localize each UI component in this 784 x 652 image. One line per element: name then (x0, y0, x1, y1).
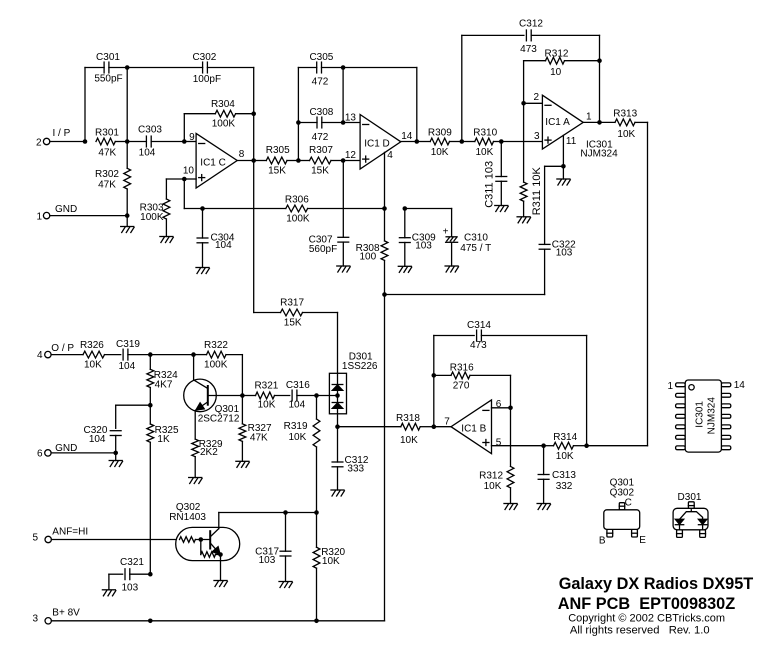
wire (51, 452, 116, 454)
svg-text:104: 104 (118, 361, 135, 372)
resistor R317 (254, 297, 338, 328)
svg-text:1: 1 (36, 211, 42, 222)
capacitor C316 (286, 380, 317, 411)
svg-text:GND: GND (55, 204, 77, 215)
svg-text:104: 104 (139, 147, 156, 158)
capacitor C312 (462, 19, 600, 56)
svg-text:ANF=HI: ANF=HI (52, 526, 88, 537)
capacitor C304 (197, 209, 235, 268)
svg-text:14: 14 (401, 131, 413, 142)
svg-text:C316: C316 (286, 380, 310, 391)
svg-text:R319: R319 (284, 421, 308, 432)
svg-text:R304: R304 (211, 99, 235, 110)
resistor R325 (147, 405, 179, 574)
svg-text:10K: 10K (322, 556, 340, 567)
ground (279, 582, 292, 588)
svg-text:C: C (625, 498, 632, 509)
terminal pin 6 GND (37, 443, 77, 459)
svg-text:R312: R312 (545, 48, 569, 59)
label IC301 NJM324 (580, 140, 618, 160)
svg-text:ANF PCB EPT009830Z: ANF PCB EPT009830Z (558, 595, 735, 613)
svg-text:4: 4 (387, 150, 393, 161)
svg-text:9: 9 (189, 132, 195, 143)
ground (504, 504, 517, 510)
node R314 junction (584, 443, 647, 448)
svg-text:R306: R306 (285, 194, 309, 205)
svg-text:B+ 8V: B+ 8V (52, 607, 80, 618)
node pin2 junction (521, 101, 526, 106)
resistor R319 (284, 396, 320, 513)
svg-text:473: 473 (520, 44, 537, 55)
svg-text:10K: 10K (476, 147, 494, 158)
svg-text:104: 104 (288, 400, 305, 411)
ground (537, 504, 550, 510)
svg-text:3: 3 (534, 131, 540, 142)
wire supply horizontal (385, 294, 545, 296)
svg-text:C312: C312 (519, 19, 543, 30)
node pin7 junction (432, 424, 452, 429)
svg-text:C303: C303 (138, 124, 162, 135)
svg-text:11: 11 (566, 136, 577, 147)
resistor R322 (194, 340, 243, 371)
svg-text:3: 3 (32, 614, 38, 625)
svg-text:14: 14 (734, 380, 746, 391)
svg-text:IC1 C: IC1 C (200, 157, 226, 168)
svg-text:100K: 100K (204, 360, 228, 371)
svg-text:4: 4 (37, 350, 43, 361)
svg-text:R316: R316 (450, 362, 474, 373)
wire pin6 (492, 407, 511, 409)
svg-text:R318: R318 (396, 413, 420, 424)
resistor R307 (298, 145, 343, 177)
ground (160, 237, 173, 243)
svg-text:10K: 10K (556, 451, 574, 462)
resistor R312 (10K) (479, 408, 514, 504)
node pin11 junction (545, 164, 566, 179)
resistor R311 (520, 103, 543, 217)
diode D301 1SS226 (329, 352, 378, 427)
ground (398, 266, 411, 272)
wire Q302 collector (219, 512, 286, 514)
op-amp U1 IC1 A (533, 92, 592, 149)
svg-text:R301: R301 (95, 127, 119, 138)
svg-text:104: 104 (215, 240, 232, 251)
wire R322 right (241, 355, 243, 396)
node R319-R320 junction (314, 510, 319, 515)
node C319 junction (148, 352, 194, 357)
wire pin11 (562, 135, 564, 166)
svg-text:10K: 10K (431, 147, 449, 158)
svg-text:100K: 100K (140, 212, 164, 223)
svg-text:C302: C302 (192, 52, 216, 63)
capacitor C314 (434, 320, 587, 446)
svg-text:15K: 15K (311, 165, 329, 176)
svg-text:475 / T: 475 / T (460, 243, 491, 254)
capacitor C312 (333) (332, 427, 369, 490)
svg-text:All rights reserved Rev. 1.0: All rights reserved Rev. 1.0 (570, 625, 710, 637)
ground (236, 461, 249, 467)
capacitor C308 (298, 107, 343, 143)
svg-text:R313: R313 (613, 109, 637, 120)
wire pin1 (583, 121, 599, 123)
node Q301 base junction (240, 393, 245, 398)
resistor R312 value 10 (524, 48, 600, 78)
wire output vertical (253, 68, 255, 313)
capacitor C303 (127, 124, 184, 158)
node pin14 junction (415, 68, 420, 144)
node pin1 junction (597, 120, 602, 125)
svg-text:473: 473 (470, 340, 487, 351)
wire pin4 (384, 152, 386, 208)
svg-text:R317: R317 (280, 297, 304, 308)
svg-text:Galaxy DX Radios DX95T: Galaxy DX Radios DX95T (559, 575, 754, 593)
resistor R306 (203, 194, 385, 224)
terminal pin 4 O/P (37, 343, 74, 361)
svg-text:C305: C305 (309, 52, 333, 63)
wire ANF (51, 539, 175, 541)
svg-text:103: 103 (415, 241, 432, 252)
svg-text:10: 10 (183, 165, 195, 176)
node C320-GND junction (113, 451, 118, 461)
svg-text:C311 103: C311 103 (483, 161, 495, 208)
node pin6 junction (508, 406, 513, 411)
capacitor C305 (298, 52, 343, 87)
svg-text:C314: C314 (467, 320, 491, 331)
node R324-R325 junction (148, 403, 153, 408)
node pin3 junction (499, 139, 542, 144)
wire output rail (647, 122, 649, 445)
node C316 junction (314, 393, 319, 398)
svg-text:100K: 100K (286, 213, 310, 224)
ground (214, 581, 227, 587)
ground (337, 266, 350, 272)
svg-text:10K: 10K (258, 400, 276, 411)
wire bias from pin10 (184, 179, 202, 209)
svg-text:1SS226: 1SS226 (342, 361, 378, 372)
svg-text:103: 103 (556, 248, 573, 259)
svg-text:104: 104 (89, 434, 106, 445)
svg-text:R305: R305 (266, 145, 290, 156)
capacitor C320 (83, 405, 150, 453)
svg-text:270: 270 (453, 381, 470, 392)
node C321 junction (148, 572, 153, 577)
svg-text:5: 5 (32, 533, 38, 544)
svg-text:2K2: 2K2 (200, 447, 218, 458)
D301 diode package (673, 492, 708, 537)
wire (337, 313, 339, 374)
wire (50, 141, 85, 143)
node R301-R302 junction (125, 139, 130, 144)
op-amp U1 IC1 B (444, 399, 501, 454)
wire pin8 (237, 160, 254, 162)
capacitor C307 (309, 161, 349, 267)
svg-text:10K: 10K (84, 360, 102, 371)
node R308 bottom junction (382, 292, 387, 297)
resistor R318 (338, 413, 434, 446)
node GND junction (125, 213, 130, 226)
transistor Q2 Q302 RN1403 (169, 502, 240, 580)
svg-text:R326: R326 (80, 340, 104, 351)
svg-text:550pF: 550pF (94, 74, 122, 85)
svg-text:NJM324: NJM324 (580, 149, 618, 160)
node B+ R325 junction (148, 619, 153, 624)
svg-text:C319: C319 (116, 339, 140, 350)
svg-text:47K: 47K (250, 432, 268, 443)
node pin9 junction (182, 139, 196, 144)
ground (495, 206, 508, 212)
svg-text:103: 103 (259, 555, 276, 566)
ground (331, 490, 344, 496)
node R316 junction (432, 336, 437, 427)
node D301 bottom junction (335, 424, 340, 429)
svg-text:12: 12 (345, 150, 357, 161)
terminal pin 2 I/P (36, 128, 71, 148)
svg-text:IC1 A: IC1 A (545, 117, 570, 128)
svg-text:7: 7 (444, 416, 450, 427)
svg-text:472: 472 (312, 132, 329, 143)
node pin12 junction (341, 158, 360, 163)
svg-text:C321: C321 (120, 557, 144, 568)
svg-text:R322: R322 (204, 340, 228, 351)
svg-text:47K: 47K (98, 180, 116, 191)
svg-text:R307: R307 (309, 145, 333, 156)
rights (570, 625, 710, 637)
capacitor C313 (538, 446, 576, 504)
wire (286, 512, 317, 514)
capacitor C309 (399, 209, 436, 267)
wire (50, 215, 127, 217)
resistor R309 (417, 127, 462, 157)
ground (121, 227, 134, 233)
node pin8 junction (251, 158, 256, 163)
svg-text:332: 332 (556, 481, 573, 492)
capacitor C319 (116, 339, 150, 372)
svg-text:4K7: 4K7 (155, 379, 173, 390)
node C313 junction (541, 443, 546, 448)
capacitor C311 (483, 142, 506, 208)
node C308 junction R (341, 120, 360, 125)
svg-text:R312: R312 (479, 470, 503, 481)
wire supply vertical (384, 295, 386, 621)
svg-text:2: 2 (36, 137, 42, 148)
resistor R303 (140, 179, 185, 237)
svg-text:+: + (443, 227, 449, 238)
svg-text:B: B (599, 536, 606, 547)
terminal pin 1 GND (36, 204, 77, 222)
svg-text:R321: R321 (254, 380, 278, 391)
resistor R326 (80, 340, 121, 371)
transistor Q2 Q301 2SC2712 (184, 355, 243, 440)
svg-text:R310: R310 (473, 127, 497, 138)
wire B+ rail (51, 620, 384, 622)
svg-text:10K: 10K (289, 432, 307, 443)
svg-text:Copyright © 2002 CBTricks.com: Copyright © 2002 CBTricks.com (568, 613, 725, 625)
svg-text:C308: C308 (309, 107, 333, 118)
wire (51, 354, 83, 356)
resistor R304 (184, 99, 253, 142)
svg-text:100: 100 (360, 252, 377, 263)
node C317 junction (283, 510, 288, 515)
svg-text:6: 6 (37, 448, 43, 459)
node C301-C302 junction (125, 65, 130, 141)
node R304 output junction (251, 111, 256, 116)
IC301 DIP package (667, 380, 745, 452)
node pin4 junction (382, 206, 387, 211)
svg-text:8: 8 (239, 149, 245, 160)
svg-text:10: 10 (550, 67, 562, 78)
capacitor C302 (127, 52, 254, 85)
node D301 center tap (317, 393, 340, 398)
Q301 Q302 SOT package (599, 478, 646, 547)
resistor R320 (313, 513, 345, 621)
svg-text:10K: 10K (484, 481, 502, 492)
ground (445, 266, 458, 272)
svg-text:C313: C313 (552, 470, 576, 481)
svg-text:NJM324: NJM324 (707, 397, 718, 435)
node C308 junction L (296, 120, 301, 125)
resistor R314 (544, 432, 587, 462)
node C309 junction (403, 206, 408, 211)
capacitor C317 (255, 513, 291, 582)
svg-text:10K: 10K (617, 129, 635, 140)
resistor R301 (95, 127, 127, 158)
svg-text:1: 1 (667, 381, 673, 392)
svg-text:E: E (639, 535, 646, 546)
svg-text:10K: 10K (400, 435, 418, 446)
terminal pin 5 ANF=HI (32, 526, 88, 543)
op-amp U1 IC1 C (183, 132, 245, 188)
svg-text:R311 10K: R311 10K (531, 167, 543, 216)
wire pin2 (524, 61, 543, 104)
ground (517, 217, 530, 223)
resistor R321 (242, 380, 289, 410)
svg-text:RN1403: RN1403 (169, 512, 206, 523)
svg-text:R302: R302 (95, 169, 119, 180)
svg-text:100pF: 100pF (193, 74, 221, 85)
svg-text:1K: 1K (157, 434, 170, 445)
svg-text:IC1 B: IC1 B (461, 424, 486, 435)
svg-text:I / P: I / P (53, 128, 71, 139)
wire pin5 (492, 445, 544, 447)
resistor R329 (192, 439, 223, 478)
resistor R316 (434, 362, 511, 408)
svg-text:47K: 47K (98, 147, 116, 158)
node C304 junction (200, 206, 205, 211)
wire pin14 (401, 141, 417, 143)
resistor R302 (95, 142, 131, 216)
capacitor C322 (539, 166, 576, 294)
svg-text:IC1 D: IC1 D (364, 138, 390, 149)
node B+ R320 junction (314, 619, 319, 624)
svg-text:103: 103 (121, 582, 138, 593)
svg-text:100K: 100K (212, 118, 236, 129)
title line 1 (559, 575, 754, 593)
title line 2 (558, 595, 735, 613)
svg-text:C301: C301 (96, 52, 120, 63)
svg-text:5: 5 (496, 437, 502, 448)
resistor R324 (147, 355, 178, 406)
node C305 junction (341, 65, 417, 122)
svg-text:2SC2712: 2SC2712 (198, 413, 240, 424)
svg-text:O / P: O / P (51, 343, 74, 354)
capacitor C321 (109, 557, 150, 593)
svg-text:15K: 15K (284, 317, 302, 328)
svg-text:13: 13 (345, 112, 357, 123)
resistor R327 (239, 396, 272, 462)
ground (109, 461, 122, 467)
svg-text:472: 472 (312, 77, 329, 88)
svg-text:R309: R309 (428, 127, 452, 138)
capacitor C310 electrolytic (405, 209, 491, 267)
node pin10 junction (182, 177, 187, 182)
copyright (568, 613, 725, 625)
resistor R308 (356, 209, 388, 295)
terminal pin 3 B+ (32, 607, 80, 624)
svg-text:1: 1 (586, 112, 592, 123)
svg-text:2: 2 (533, 92, 539, 103)
ground (557, 179, 570, 185)
ground (189, 478, 202, 484)
resistor R305 (254, 145, 299, 177)
node R309-R310 junction (460, 35, 465, 143)
svg-text:C310: C310 (464, 232, 488, 243)
svg-text:333: 333 (347, 464, 364, 475)
op-amp U1 IC1 D (345, 112, 413, 169)
ground (102, 590, 115, 596)
node input junction (83, 68, 88, 144)
ground (196, 268, 209, 274)
svg-text:15K: 15K (268, 165, 286, 176)
svg-text:IC301: IC301 (695, 401, 706, 428)
node Q301 collector junction (191, 352, 196, 357)
wire pin 10 (184, 178, 196, 180)
resistor R313 (600, 109, 648, 140)
svg-text:R314: R314 (553, 432, 577, 443)
node R312 junction (597, 35, 602, 122)
svg-text:560pF: 560pF (309, 244, 337, 255)
node A junction (296, 68, 301, 163)
resistor R310 (462, 127, 502, 157)
capacitor C301 (85, 52, 127, 85)
